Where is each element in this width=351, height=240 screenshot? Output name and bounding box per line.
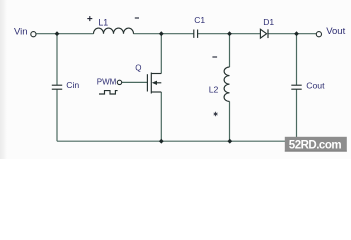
svg-text:Q: Q	[135, 64, 141, 73]
svg-text:D1: D1	[263, 17, 274, 27]
svg-text:L2: L2	[209, 85, 219, 95]
svg-text:PWM: PWM	[97, 77, 117, 86]
svg-text:Cout: Cout	[306, 81, 325, 91]
svg-text:Vin: Vin	[14, 26, 28, 37]
svg-text:Vout: Vout	[326, 26, 345, 37]
svg-text:Cin: Cin	[66, 80, 79, 90]
svg-text:L1: L1	[98, 18, 108, 28]
svg-text:C1: C1	[194, 15, 205, 25]
svg-text:52RD.com: 52RD.com	[289, 139, 342, 151]
